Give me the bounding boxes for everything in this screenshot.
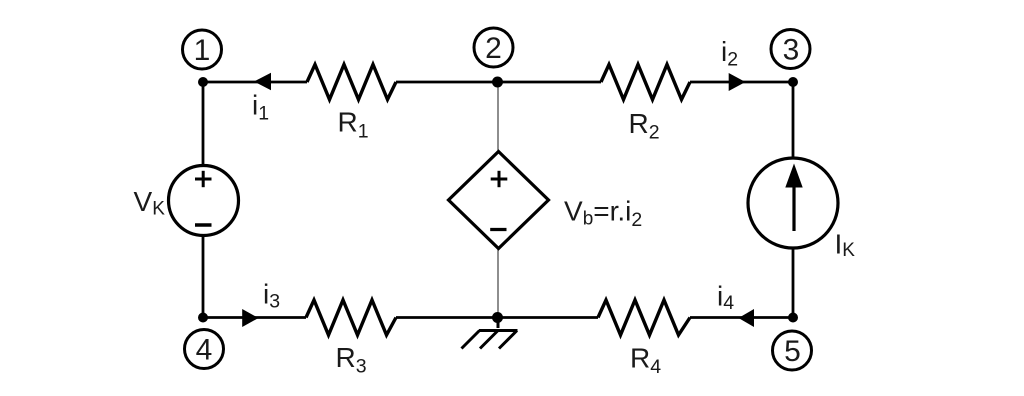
- wire right-top: node3 down to IK: [792, 82, 795, 159]
- resistor R3: [306, 300, 396, 335]
- wire top-right: R2 to node3: [690, 81, 793, 84]
- wire left-top: node1 down to VK: [202, 82, 205, 166]
- current arrow i4 (left): [739, 309, 755, 327]
- wire bottom-middle: R3 to R4: [396, 316, 598, 319]
- VK plus sign: [195, 178, 212, 181]
- ground symbol: [462, 318, 518, 349]
- node circle 5: [773, 331, 812, 370]
- wire right-bottom: IK down to node5: [792, 248, 795, 318]
- current arrow i3 (right): [242, 309, 258, 327]
- svg-text:5: 5: [784, 335, 801, 368]
- IK arrow shaft: [792, 182, 795, 231]
- wire top-left: node1 to R1: [203, 81, 307, 84]
- junction dot node 4: [198, 313, 208, 323]
- junction dot node 5: [788, 313, 798, 323]
- node circle 2: [474, 28, 513, 67]
- node circle 4: [185, 330, 224, 369]
- voltage source VK circle: [169, 166, 239, 236]
- wire top-middle: R1 to R2: [396, 81, 601, 84]
- resistor R4: [598, 300, 690, 335]
- current arrow i2 (right): [729, 73, 746, 91]
- current arrow i1 (left): [254, 73, 271, 91]
- resistor R1: [307, 65, 396, 100]
- junction dot node 2: [492, 77, 503, 88]
- node circle 1: [183, 30, 222, 69]
- node circle 3: [771, 30, 810, 69]
- current source IK circle: [748, 158, 838, 248]
- wire left-bottom: VK down to node4: [202, 236, 205, 318]
- junction dot node 3: [788, 77, 798, 87]
- svg-text:2: 2: [485, 32, 502, 65]
- junction dot ground node: [492, 312, 503, 323]
- svg-text:Vb=r.i2: Vb=r.i2: [564, 195, 642, 231]
- wire middle-bottom thin: diamond down to ground node: [497, 249, 499, 318]
- diamond minus sign: [490, 228, 506, 231]
- wire middle-top thin: node2 down to diamond: [497, 82, 499, 152]
- dependent source diamond U1: [449, 152, 549, 249]
- VK minus sign: [195, 223, 212, 226]
- IK arrow head: [785, 164, 802, 188]
- svg-text:1: 1: [194, 34, 211, 67]
- wire bottom-right: R4 to node5: [690, 316, 793, 319]
- junction dot node 1: [198, 77, 208, 87]
- svg-text:3: 3: [783, 34, 800, 67]
- wire bottom-left: node4 to R3: [203, 316, 306, 319]
- diamond plus sign: [491, 178, 508, 181]
- svg-text:4: 4: [196, 334, 213, 367]
- resistor R2: [601, 65, 690, 100]
